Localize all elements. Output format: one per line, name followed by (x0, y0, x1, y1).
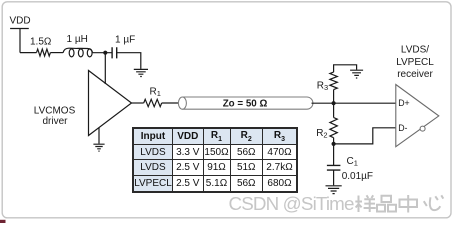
svg-text:VDD: VDD (10, 15, 31, 26)
svg-text:0.01µF: 0.01µF (342, 171, 373, 182)
svg-text:Zo = 50 Ω: Zo = 50 Ω (223, 99, 268, 110)
wire node C down to C1 (333, 144, 335, 165)
ground G3 (350, 70, 363, 78)
junction node A (103, 51, 107, 55)
resistor R2 (330, 118, 337, 138)
wire capacitor to ground (117, 53, 141, 69)
wire VDD to R series (20, 52, 37, 54)
corner mark (0, 220, 6, 223)
wire node B down to R2 (333, 103, 335, 117)
watermark text (229, 195, 354, 214)
svg-text:1 µH: 1 µH (67, 34, 88, 45)
wire driver output (132, 102, 144, 104)
receiver enable bubble (420, 126, 425, 131)
svg-text:R3: R3 (317, 80, 328, 92)
capacitor C1 plates (327, 165, 341, 170)
capacitor 1uF plates (112, 47, 117, 58)
resistor R3 (330, 72, 337, 90)
wire C1 to ground (333, 170, 335, 185)
wire R1 to transmission line (162, 102, 179, 104)
wire line to node B (312, 102, 396, 104)
svg-text:LVPECL: LVPECL (396, 57, 434, 68)
watermark CJK glyphs (355, 195, 443, 213)
svg-text:receiver: receiver (397, 69, 433, 80)
wire R3 to ground (334, 65, 357, 72)
svg-text:C1: C1 (347, 156, 358, 168)
resistor 1.5ohm (37, 49, 51, 56)
inductor L1 1uH (63, 48, 93, 57)
VDD rail symbol (10, 29, 29, 53)
svg-text:R1: R1 (150, 87, 161, 99)
ground G1 (134, 69, 148, 76)
glyph xin (424, 195, 444, 210)
wire node C to receiver D- (334, 128, 396, 144)
svg-text:D-: D- (398, 123, 407, 133)
resistor R1 (144, 99, 162, 106)
svg-text:LVDS/: LVDS/ (401, 45, 429, 56)
svg-text:1.5Ω: 1.5Ω (30, 36, 52, 47)
ground G2 (93, 144, 104, 151)
junction node C (332, 142, 336, 146)
wire resistor to inductor (50, 52, 63, 54)
glyph yang (355, 195, 376, 212)
wire driver to ground (98, 128, 100, 144)
svg-text:R2: R2 (316, 128, 327, 140)
glyph zhong (400, 195, 418, 213)
svg-text:D+: D+ (398, 98, 410, 108)
op-amp U2 LVDS receiver (396, 85, 439, 147)
transmission line Zo=50 body (178, 97, 312, 109)
wire R2 to node C (333, 138, 335, 144)
junction node B (332, 101, 336, 105)
svg-text:1 µF: 1 µF (115, 34, 135, 45)
glyph pin (377, 196, 396, 212)
wire inductor to node A (93, 52, 112, 54)
wire node A down to driver (104, 53, 106, 84)
op-amp U1 LVCMOS driver (89, 71, 132, 136)
wire node B up to R3 (333, 90, 335, 104)
svg-text:driver: driver (42, 116, 68, 127)
termination values table (132, 127, 298, 193)
ground G4 (326, 186, 342, 194)
